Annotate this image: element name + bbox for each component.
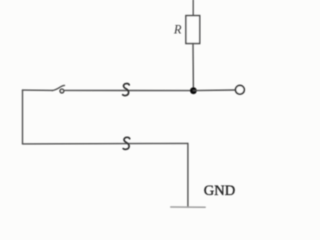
node A junction dot [190,87,197,94]
wire resistor to node A [192,44,194,91]
wire left vertical [22,90,24,144]
terminal open circle [236,85,245,94]
switch S1 contact circle [60,89,64,93]
svg-text:R: R [173,23,182,37]
wire switch to node A [65,89,194,91]
wire bottom horizontal [23,142,188,145]
resistor R1 body [186,16,200,44]
switch S1 lever [52,85,64,90]
wire top feed into resistor [192,0,194,16]
svg-text:GND: GND [204,183,235,199]
break squiggle upper wire [123,84,130,96]
break squiggle lower wire [123,137,130,149]
wire right vertical to ground [187,143,189,207]
wire node A to terminal [193,89,235,92]
ground top bar [171,206,205,208]
wire left top segment to switch [23,89,53,91]
